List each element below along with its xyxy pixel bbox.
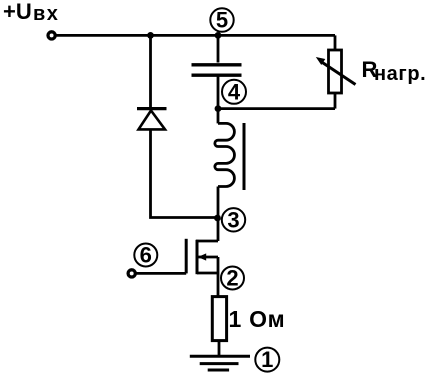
svg-text:4: 4 [228,79,241,104]
svg-text:+U: +U [3,0,32,24]
svg-text:2: 2 [226,266,238,291]
svg-text:нагр.: нагр. [374,63,426,85]
svg-text:3: 3 [227,207,239,232]
svg-text:6: 6 [140,243,152,268]
svg-text:5: 5 [216,8,228,33]
svg-text:1 Ом: 1 Ом [229,306,286,332]
svg-text:1: 1 [261,347,273,372]
svg-text:вх: вх [33,3,59,25]
